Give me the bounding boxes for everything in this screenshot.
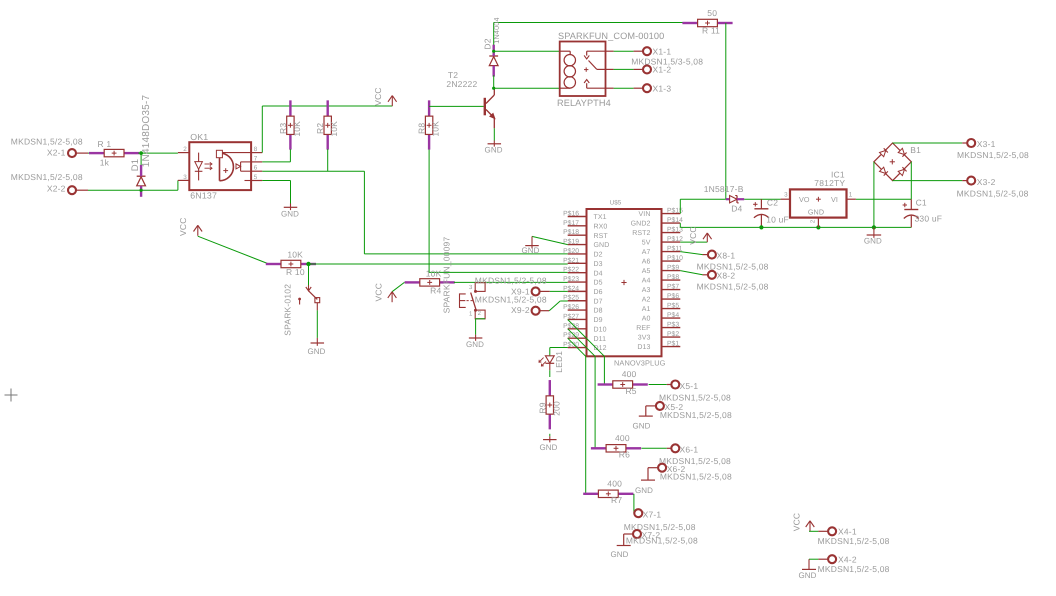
svg-text:P$11: P$11	[667, 245, 683, 253]
svg-text:A0: A0	[642, 316, 651, 323]
svg-text:R 11: R 11	[702, 26, 720, 36]
svg-text:X9-2: X9-2	[511, 305, 530, 315]
svg-text:P$21: P$21	[563, 256, 579, 264]
svg-text:10K: 10K	[292, 121, 302, 137]
svg-text:C1: C1	[916, 197, 927, 207]
svg-text:NANOV3PLUG: NANOV3PLUG	[614, 358, 666, 367]
svg-text:A2: A2	[642, 297, 651, 304]
svg-text:X3-2: X3-2	[977, 177, 996, 187]
svg-text:RST2: RST2	[632, 230, 650, 237]
svg-text:P$14: P$14	[667, 216, 683, 224]
svg-text:GND: GND	[281, 209, 299, 218]
svg-text:400: 400	[607, 478, 622, 488]
svg-text:5V: 5V	[642, 240, 651, 247]
svg-text:LED1: LED1	[554, 351, 564, 373]
svg-text:MKDSN1,5/2-5,08: MKDSN1,5/2-5,08	[11, 136, 83, 146]
svg-text:X2-1: X2-1	[47, 148, 66, 158]
svg-text:3V3: 3V3	[638, 335, 651, 342]
svg-text:P$18: P$18	[563, 228, 579, 236]
svg-text:MKDSN1,5/2-5,08: MKDSN1,5/2-5,08	[11, 172, 83, 182]
svg-text:VCC: VCC	[374, 283, 384, 302]
svg-text:VCC: VCC	[373, 87, 383, 106]
svg-text:X6-1: X6-1	[680, 445, 699, 455]
svg-text:R9: R9	[537, 402, 547, 413]
svg-text:10K: 10K	[329, 121, 339, 137]
svg-text:GND: GND	[635, 486, 653, 495]
svg-text:1N4004: 1N4004	[492, 17, 501, 43]
svg-text:200: 200	[551, 401, 561, 416]
svg-text:MKDSN1,5/2-5,08: MKDSN1,5/2-5,08	[818, 564, 890, 574]
svg-text:A6: A6	[642, 259, 651, 266]
svg-text:GND: GND	[632, 422, 650, 431]
svg-text:P$20: P$20	[563, 247, 579, 255]
svg-text:8: 8	[254, 146, 258, 153]
svg-text:X8-1: X8-1	[717, 250, 736, 260]
svg-text:2: 2	[183, 146, 187, 153]
svg-text:X8-2: X8-2	[717, 271, 736, 281]
svg-text:GND: GND	[610, 550, 628, 559]
svg-text:10 uF: 10 uF	[766, 215, 789, 225]
svg-text:A1: A1	[642, 306, 651, 313]
svg-text:P$2: P$2	[667, 330, 679, 338]
svg-text:P$27: P$27	[563, 312, 579, 320]
svg-text:MKDSN1,5/2-5,08: MKDSN1,5/2-5,08	[475, 294, 547, 304]
svg-text:R4: R4	[430, 286, 441, 296]
svg-text:X5-1: X5-1	[680, 381, 699, 391]
svg-text:GND: GND	[466, 340, 484, 349]
svg-text:GND: GND	[521, 246, 539, 255]
svg-text:MKDSN1,5/2-5,08: MKDSN1,5/2-5,08	[659, 392, 731, 402]
svg-text:P$17: P$17	[563, 219, 579, 227]
svg-text:P$23: P$23	[563, 275, 579, 283]
svg-text:D2: D2	[594, 252, 603, 259]
svg-text:D4: D4	[594, 270, 603, 277]
svg-text:P$9: P$9	[667, 264, 679, 272]
svg-text:GND: GND	[594, 242, 610, 249]
svg-text:R7: R7	[611, 495, 622, 505]
svg-text:RELAYPTH4: RELAYPTH4	[557, 98, 611, 108]
svg-text:D3: D3	[594, 261, 603, 268]
svg-text:P$4: P$4	[667, 311, 679, 319]
svg-text:MKDSN1,5/3-5,08: MKDSN1,5/3-5,08	[631, 57, 703, 67]
svg-text:D11: D11	[594, 336, 607, 343]
svg-text:REF: REF	[636, 325, 650, 332]
svg-text:A3: A3	[642, 287, 651, 294]
svg-text:GND2: GND2	[631, 221, 651, 228]
svg-text:VIN: VIN	[639, 211, 651, 218]
svg-text:D8: D8	[594, 308, 603, 315]
svg-text:5: 5	[254, 174, 258, 181]
svg-text:SPARKFUN_COM-00100: SPARKFUN_COM-00100	[558, 31, 664, 41]
svg-text:R5: R5	[625, 386, 636, 396]
svg-text:MKDSN1,5/2-5,08: MKDSN1,5/2-5,08	[697, 281, 769, 291]
svg-text:7: 7	[254, 155, 258, 162]
svg-text:400: 400	[622, 369, 637, 379]
svg-text:TX1: TX1	[594, 214, 607, 221]
svg-text:GND: GND	[485, 146, 503, 155]
svg-text:X1-3: X1-3	[653, 83, 672, 93]
svg-text:2N2222: 2N2222	[446, 79, 477, 89]
svg-text:D4: D4	[731, 204, 742, 214]
svg-text:RST: RST	[594, 233, 609, 240]
svg-text:MKDSN1,5/2-5,08: MKDSN1,5/2-5,08	[626, 535, 698, 545]
svg-text:D7: D7	[594, 298, 603, 305]
svg-text:C2: C2	[767, 198, 778, 208]
svg-text:A4: A4	[642, 278, 651, 285]
svg-text:MKDSN1,5/2-5,08: MKDSN1,5/2-5,08	[475, 275, 547, 285]
svg-text:B1: B1	[910, 145, 921, 155]
svg-text:1: 1	[849, 191, 853, 198]
svg-text:VO: VO	[799, 195, 810, 204]
svg-text:X2-2: X2-2	[47, 184, 66, 194]
svg-text:RX0: RX0	[594, 223, 608, 230]
svg-text:10K: 10K	[426, 268, 442, 278]
svg-text:X7-1: X7-1	[643, 510, 662, 520]
svg-text:1N5817-B: 1N5817-B	[704, 184, 744, 194]
svg-text:P$10: P$10	[667, 254, 683, 262]
svg-text:P$16: P$16	[563, 210, 579, 218]
svg-text:P$1: P$1	[667, 340, 679, 348]
svg-text:R3: R3	[278, 123, 288, 134]
svg-text:7812TY: 7812TY	[814, 178, 845, 188]
svg-text:400: 400	[615, 433, 630, 443]
svg-text:1k: 1k	[100, 157, 110, 167]
svg-text:VCC: VCC	[688, 226, 698, 245]
svg-text:GND: GND	[307, 347, 325, 356]
svg-text:MKDSN1,5/2-5,08: MKDSN1,5/2-5,08	[660, 410, 732, 420]
svg-text:6: 6	[254, 165, 258, 172]
svg-text:D1: D1	[130, 159, 141, 172]
svg-text:MKDSN1,5/2-5,08: MKDSN1,5/2-5,08	[957, 150, 1029, 160]
svg-text:3: 3	[183, 174, 187, 181]
svg-text:MKDSN1,5/2-5,08: MKDSN1,5/2-5,08	[957, 189, 1029, 199]
svg-text:50: 50	[707, 8, 717, 18]
svg-text:SPARK-0102: SPARK-0102	[282, 284, 292, 336]
svg-text:6N137: 6N137	[190, 190, 217, 200]
svg-text:D6: D6	[594, 289, 603, 296]
svg-text:R8: R8	[417, 123, 427, 134]
svg-text:GND: GND	[808, 208, 824, 217]
svg-text:P$22: P$22	[563, 266, 579, 274]
svg-text:R 1: R 1	[97, 139, 111, 149]
svg-text:2: 2	[809, 219, 816, 223]
svg-text:P$7: P$7	[667, 283, 679, 291]
svg-text:MKDSN1,5/2-5,08: MKDSN1,5/2-5,08	[818, 536, 890, 546]
svg-text:D12: D12	[594, 345, 607, 352]
svg-text:D9: D9	[594, 317, 603, 324]
svg-text:OK1: OK1	[190, 132, 208, 142]
svg-text:GND: GND	[798, 571, 816, 580]
svg-text:X3-1: X3-1	[977, 139, 996, 149]
svg-text:GND: GND	[864, 237, 882, 246]
svg-text:VI: VI	[831, 195, 838, 204]
svg-text:VCC: VCC	[792, 513, 802, 532]
svg-text:MKDSN1,5/2-5,08: MKDSN1,5/2-5,08	[660, 471, 732, 481]
svg-text:10K: 10K	[287, 249, 303, 259]
svg-text:R6: R6	[619, 450, 630, 460]
svg-text:D13: D13	[637, 344, 650, 351]
svg-text:P$5: P$5	[667, 302, 679, 310]
svg-text:P$26: P$26	[563, 303, 579, 311]
svg-text:A7: A7	[642, 249, 651, 256]
svg-text:P$6: P$6	[667, 292, 679, 300]
svg-text:GND: GND	[539, 443, 557, 452]
svg-text:A5: A5	[642, 268, 651, 275]
svg-text:P$8: P$8	[667, 273, 679, 281]
svg-text:R 10: R 10	[286, 267, 305, 277]
svg-text:3: 3	[784, 191, 788, 198]
svg-text:SPARKFUN_00097: SPARKFUN_00097	[442, 237, 452, 314]
svg-text:330 uF: 330 uF	[915, 214, 943, 224]
svg-text:U$5: U$5	[610, 199, 622, 206]
svg-text:X1-1: X1-1	[653, 46, 672, 56]
svg-text:10K: 10K	[431, 121, 441, 137]
svg-text:VCC: VCC	[178, 217, 188, 236]
svg-text:P$3: P$3	[667, 321, 679, 329]
svg-text:R2: R2	[315, 123, 325, 134]
svg-text:D5: D5	[594, 280, 603, 287]
svg-text:1N4148DO35-7: 1N4148DO35-7	[141, 95, 152, 168]
svg-text:D10: D10	[594, 326, 607, 333]
